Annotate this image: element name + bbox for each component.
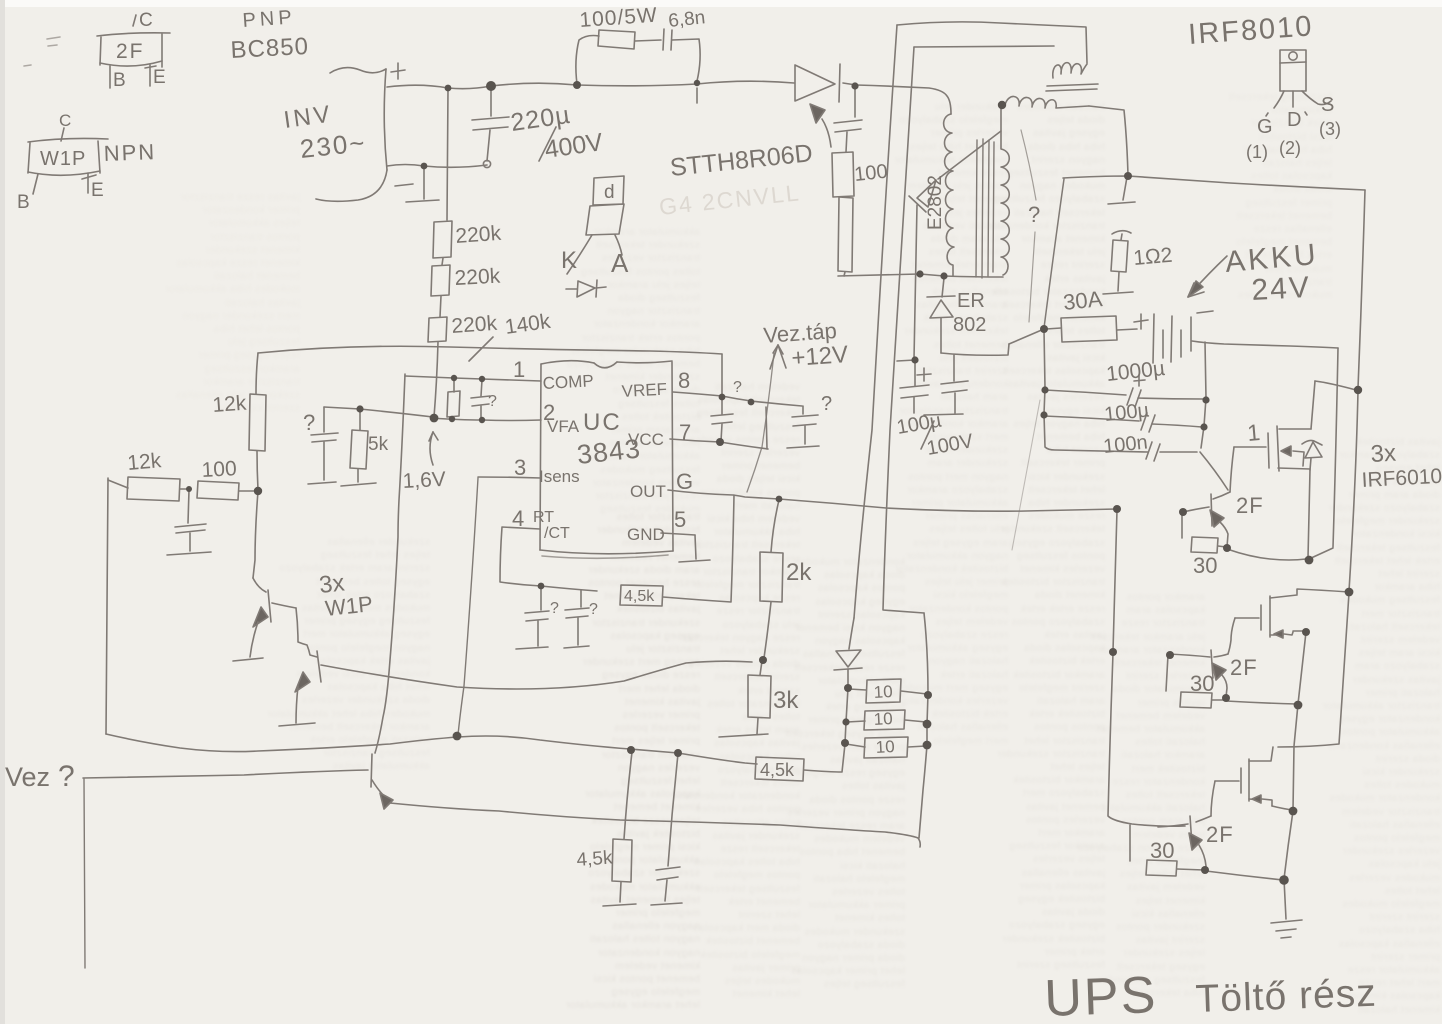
svg-text:A: A xyxy=(611,248,629,278)
transformer primary winding xyxy=(944,114,954,276)
capacitor on pin4 node (?) xyxy=(516,587,549,649)
legend 2F pin B lead xyxy=(109,66,111,88)
svg-text:IRF6010: IRF6010 xyxy=(1361,465,1442,492)
wire: bottom long line L1 xyxy=(106,734,757,764)
node 5k top xyxy=(356,405,363,412)
node transformer bottom b xyxy=(940,272,947,279)
legend W1P pin C lead xyxy=(61,128,64,141)
wire: Isens pin3 rail xyxy=(478,477,541,478)
MOSFET M2 stage xyxy=(1235,595,1306,638)
svg-text:VFA: VFA xyxy=(547,417,580,436)
svg-text:100n: 100n xyxy=(1102,431,1149,458)
svg-text:?: ? xyxy=(733,379,742,396)
svg-text:1,6V: 1,6V xyxy=(402,468,446,493)
svg-text:?: ? xyxy=(1028,202,1040,227)
node L1 pin3 xyxy=(453,732,462,741)
wire: battery minus vertical xyxy=(1333,348,1338,547)
node top rail a xyxy=(445,85,452,92)
resistor 100 snubber leg: cap xyxy=(834,86,862,152)
resistor 30 #1 xyxy=(1182,514,1226,553)
svg-text:OUT: OUT xyxy=(630,482,666,501)
wire: line B bus xyxy=(919,613,928,838)
annotation arrow AKKU xyxy=(1188,256,1227,297)
plus sign at 100u cap xyxy=(917,368,931,381)
node comp r xyxy=(451,375,457,381)
svg-text:220k: 220k xyxy=(454,265,501,290)
node caps left 2 xyxy=(1040,411,1047,418)
wire: battery minus branch down caps xyxy=(1200,342,1228,490)
svg-text:?: ? xyxy=(821,393,832,415)
svg-text:10: 10 xyxy=(875,737,895,757)
resistor 12k horizontal xyxy=(108,477,189,501)
wire: Vez? vertical tail xyxy=(84,779,85,968)
node VFA main xyxy=(430,414,439,423)
arrow up to +12V xyxy=(770,345,786,369)
svg-text:2F: 2F xyxy=(1206,822,1234,847)
140k annotation slash xyxy=(469,337,493,361)
inductor core bars xyxy=(1046,84,1098,91)
battery AKKU 24V xyxy=(1153,314,1191,363)
node +12V xyxy=(911,356,918,363)
snubber RC on secondary: cap xyxy=(1108,177,1135,240)
wire: source to battery minus bus xyxy=(1309,548,1333,559)
svg-text:?: ? xyxy=(550,600,559,617)
capacitor on VREF rail (?) xyxy=(711,397,733,441)
wire: VCC pin7 rail xyxy=(670,407,768,449)
node lineB 3 xyxy=(923,741,932,750)
resistor 220k #1 xyxy=(433,221,452,258)
svg-text:30: 30 xyxy=(1190,671,1214,696)
small diode symbol under package xyxy=(566,280,606,297)
wire: pin3 column down to bottom line xyxy=(458,478,478,735)
wire: long top rail of control section xyxy=(258,346,722,354)
wire: COMP pin1 rail xyxy=(405,376,541,381)
svg-text:B: B xyxy=(113,70,126,91)
svg-text:5k: 5k xyxy=(368,434,389,455)
node snubber right xyxy=(694,80,700,86)
wire: battery minus to right bus xyxy=(1192,341,1338,348)
svg-text:3x: 3x xyxy=(1370,440,1397,468)
node caps right 2 xyxy=(1200,423,1207,430)
svg-text:4,5k: 4,5k xyxy=(760,760,795,780)
svg-text:K: K xyxy=(561,247,577,274)
diode STTH8R06D on top rail xyxy=(795,64,856,102)
svg-text:E: E xyxy=(153,67,166,88)
svg-text:B: B xyxy=(17,192,30,213)
svg-text:W1P: W1P xyxy=(40,148,86,170)
node transformer bottom a xyxy=(916,270,923,277)
snubber: riser from top rail xyxy=(576,36,599,85)
wire: +12V feed line down to OUT corner xyxy=(747,353,774,492)
svg-text:(3): (3) xyxy=(1319,119,1341,139)
stray pencil marks top left xyxy=(24,37,60,66)
diode ER802 lower xyxy=(927,278,955,353)
svg-text:D: D xyxy=(1287,109,1301,131)
svg-text:E: E xyxy=(91,180,104,201)
svg-text:10: 10 xyxy=(873,709,893,729)
plus sign 1000u xyxy=(1134,375,1145,386)
wire: corner down to VREF pin 8 xyxy=(721,354,723,396)
svg-text:220k: 220k xyxy=(451,312,499,338)
svg-text:4: 4 xyxy=(512,506,524,531)
node vref c1 xyxy=(719,394,726,401)
svg-text:24V: 24V xyxy=(1251,271,1312,307)
svg-text:Töltő rész: Töltő rész xyxy=(1195,972,1378,1021)
resistor 100 snubber leg: body xyxy=(832,152,854,276)
svg-text:Vez: Vez xyxy=(5,762,50,792)
resistor 5k xyxy=(341,409,376,486)
wire: snubber return to rail xyxy=(672,39,700,81)
resistor chain lead from top rail xyxy=(447,89,448,220)
node 30-3 xyxy=(1201,866,1209,874)
wire: M3 gate down xyxy=(1211,781,1215,816)
capacitor at 12k/100 node xyxy=(167,490,211,555)
wire: enclosure left diagonal xyxy=(1044,179,1064,328)
svg-text:VREF: VREF xyxy=(621,380,667,401)
annotation arrow to diode xyxy=(810,104,831,147)
wire: GND pin5 xyxy=(661,533,710,562)
svg-text:30: 30 xyxy=(1193,553,1217,578)
svg-text:?: ? xyxy=(589,601,598,618)
svg-text:(1): (1) xyxy=(1246,142,1268,162)
resistor 4,5k (pin4) xyxy=(620,585,663,606)
wire: caps left rail xyxy=(1044,330,1148,452)
wire: RT/CT pin4 loop xyxy=(500,527,597,591)
capacitor COMP feedback xyxy=(471,380,490,419)
resistor 4,5k timing xyxy=(603,752,636,906)
capacitor 100n row xyxy=(1146,442,1197,461)
svg-text:4,5k: 4,5k xyxy=(624,588,655,605)
wire: 4,5k up to OUT line xyxy=(663,495,734,602)
svg-text:?: ? xyxy=(488,393,497,410)
wire: V2 to stage2 drain xyxy=(1297,589,1349,594)
wire: Q2 base long line to divider xyxy=(321,661,752,689)
svg-text:/CT: /CT xyxy=(544,525,570,542)
INV 230V input bracket xyxy=(316,68,387,202)
node snubber sec xyxy=(1124,172,1132,180)
node 2F1 base xyxy=(1179,508,1187,516)
svg-text:8: 8 xyxy=(678,368,690,393)
node M3 source xyxy=(1289,807,1298,816)
svg-text:10: 10 xyxy=(873,682,893,702)
wire: 5k/cap top rail xyxy=(324,407,433,417)
transistor Q1 (W1P) xyxy=(233,578,296,661)
resistor 220k #2 xyxy=(431,265,450,296)
svg-text:1: 1 xyxy=(513,357,525,382)
resistor 12k vertical xyxy=(249,353,266,490)
node 100 leg xyxy=(851,82,858,89)
node M1 source xyxy=(1305,556,1314,565)
wire xyxy=(440,296,441,317)
wire: top positive rail xyxy=(387,81,794,88)
wire: V2 down to stage3 xyxy=(1278,593,1349,747)
svg-text:G: G xyxy=(1257,116,1273,138)
resistor 30 #3 xyxy=(1130,825,1204,876)
resistor 220k #3 xyxy=(428,317,447,342)
node gate bus mid xyxy=(1109,648,1117,656)
coupled inductor top winding xyxy=(1053,63,1087,78)
resistor 1R2 xyxy=(1103,240,1133,294)
node vfa r xyxy=(449,416,455,422)
legend W1P pin E lead xyxy=(82,173,96,193)
transistor 2F #2 xyxy=(1168,650,1228,697)
svg-text:12k: 12k xyxy=(126,449,162,475)
node drain bus top xyxy=(1354,386,1362,394)
svg-text:100: 100 xyxy=(201,457,237,482)
capacitor 1000u row xyxy=(1045,388,1203,407)
legend W1P pin B lead xyxy=(33,174,38,194)
node L1 timing c xyxy=(674,749,682,757)
svg-text:30: 30 xyxy=(1150,838,1174,863)
svg-text:6,8n: 6,8n xyxy=(667,7,706,32)
node caps right 1 xyxy=(1202,396,1209,403)
resistor 4,5k bottom xyxy=(755,744,845,781)
svg-text:E2802: E2802 xyxy=(925,175,946,230)
node vfa c xyxy=(479,417,485,423)
MOSFET M1 stage xyxy=(1234,426,1311,471)
svg-text:30A: 30A xyxy=(1062,286,1104,315)
wire: M3 source bus down to ground xyxy=(1284,811,1293,919)
node gnd xyxy=(1279,875,1289,885)
wire: driver node to source bus xyxy=(1227,549,1306,560)
transistor 2F #3 xyxy=(1158,816,1211,866)
wire: driver2 node right xyxy=(1226,701,1297,704)
capacitor second on pin4 line (?) xyxy=(564,590,589,648)
IC UC3843 box xyxy=(540,361,673,559)
plus sign battery xyxy=(1134,314,1148,329)
svg-text:100: 100 xyxy=(853,161,888,186)
svg-text:802: 802 xyxy=(953,314,986,336)
node divider xyxy=(759,656,767,664)
wire: top loop of coupled inductor xyxy=(897,22,1087,63)
diode package drawing: body xyxy=(586,176,624,235)
node M2 source b xyxy=(1294,701,1303,710)
transistor legend W1P (NPN) pinout box xyxy=(28,138,108,175)
node 30-2 xyxy=(1222,694,1230,702)
node lineA 3 xyxy=(841,739,849,747)
svg-text:BC850: BC850 xyxy=(230,33,310,64)
IRF8010 package drawing xyxy=(1266,50,1331,116)
node lineA 2 xyxy=(842,718,849,725)
node lower rail xyxy=(421,163,428,170)
coupled inductor lower winding xyxy=(1005,96,1089,108)
node comp c xyxy=(479,376,485,382)
capacitor 220u/400V xyxy=(472,87,509,161)
node 12k/100 xyxy=(186,486,192,492)
svg-text:G: G xyxy=(676,469,693,494)
resistor 100 horizontal xyxy=(197,481,258,500)
node lineA 1 xyxy=(844,684,852,692)
svg-text:C: C xyxy=(59,111,71,130)
wire: M1 gate down to driver xyxy=(1230,447,1234,492)
wire: M1 source down xyxy=(1308,470,1310,558)
capacitor timing xyxy=(651,754,682,905)
transformer primary outer wire right xyxy=(883,47,924,613)
node battery in xyxy=(1040,325,1048,333)
resistor 3k xyxy=(719,661,771,737)
svg-text:NPN: NPN xyxy=(103,139,156,166)
svg-text:RT: RT xyxy=(533,509,554,526)
svg-text:W1P: W1P xyxy=(324,591,374,621)
wire: second top line xyxy=(914,46,1054,47)
transistor legend 2F (PNP BC850) pinout box xyxy=(97,15,170,67)
svg-text:5: 5 xyxy=(674,507,686,532)
transistor Q2 (W1P) xyxy=(279,608,321,726)
diode package leg K xyxy=(567,235,592,274)
wire: VFA pin2 rail xyxy=(431,418,541,421)
svg-text:2F: 2F xyxy=(1236,493,1264,518)
svg-text:4,5k: 4,5k xyxy=(576,847,614,870)
node vcc xyxy=(716,438,724,446)
resistor 10 #1 xyxy=(849,679,927,703)
node lineB 1 xyxy=(924,691,932,699)
node vref c2 xyxy=(748,399,755,406)
wire: line A with diode xyxy=(849,618,854,649)
wire: Q4 emitter long line L3 xyxy=(390,803,920,847)
wire: transformer bottom rail xyxy=(838,274,1003,277)
wire: rectified bus right edge xyxy=(1358,190,1365,388)
+12V node and caps 100u/100V xyxy=(897,355,968,415)
plus terminal xyxy=(391,63,405,79)
diode ER802 upper xyxy=(909,131,1001,359)
capacitor 100u row xyxy=(1044,413,1202,432)
node pin4 xyxy=(538,583,545,590)
wire: jog from bus to M1 drain xyxy=(1315,381,1356,390)
wire: secondary out to snubber column xyxy=(1089,106,1128,175)
svg-text:?: ? xyxy=(303,410,315,435)
wire: rectified bus top edge xyxy=(1063,176,1365,190)
node V2 stage2 xyxy=(1345,588,1354,597)
capacitor 6.8n xyxy=(663,29,672,50)
svg-text:S: S xyxy=(1321,94,1334,116)
node M2 source a xyxy=(1302,628,1310,636)
svg-text:Isens: Isens xyxy=(539,467,580,486)
minus sign battery xyxy=(1197,311,1213,313)
wire: chain down to VFA node xyxy=(434,342,438,417)
node open ring 220u bottom xyxy=(483,160,490,167)
node secondary top xyxy=(998,101,1006,109)
svg-text:12k: 12k xyxy=(212,392,248,417)
svg-text:d: d xyxy=(604,182,615,203)
capacitor ? left xyxy=(308,407,338,484)
svg-text:220k: 220k xyxy=(455,222,503,248)
node 100/12kv xyxy=(254,487,262,495)
faint crease line xyxy=(1012,400,1040,550)
wire: 12k column down to Q1 xyxy=(253,491,258,578)
svg-text:COMP: COMP xyxy=(542,371,594,393)
wire: drain bus V2 down xyxy=(1349,391,1358,591)
value slash 100u/100V xyxy=(921,421,934,449)
wire: VREF pin8 rail xyxy=(673,392,802,406)
wire xyxy=(442,258,443,265)
svg-text:(2): (2) xyxy=(1279,138,1301,158)
node snubber left xyxy=(573,81,581,89)
diode clamp mid xyxy=(834,650,862,687)
svg-text:1Ω2: 1Ω2 xyxy=(1132,244,1173,270)
wire: OUT pin6 rail to gate bus xyxy=(668,490,1117,511)
transformer secondary winding xyxy=(1001,107,1009,275)
svg-text:2F: 2F xyxy=(1230,655,1258,680)
svg-text:2k: 2k xyxy=(786,559,812,586)
resistor 100/5W xyxy=(598,30,635,49)
wire: to battery node xyxy=(941,329,1044,355)
resistor 10 #2 xyxy=(847,710,926,730)
value slash 220u/400V xyxy=(539,127,556,161)
transformer primary outer wire left xyxy=(854,25,897,618)
svg-text:?: ? xyxy=(58,760,75,793)
left enclosure edge xyxy=(106,478,108,734)
node L1 timing r xyxy=(627,746,635,754)
svg-text:UPS: UPS xyxy=(1043,966,1158,1024)
svg-text:C: C xyxy=(139,10,153,31)
wire: gate bus lower vertical xyxy=(1108,653,1185,826)
svg-text:UC: UC xyxy=(583,409,622,436)
resistor 2k xyxy=(760,500,783,658)
1,6V annotation arrow xyxy=(429,432,438,465)
minus terminal xyxy=(395,184,413,186)
resistor 10 #3 xyxy=(846,737,926,758)
svg-text:VCC: VCC xyxy=(628,430,664,449)
node 30-1 xyxy=(1223,544,1231,552)
wire: top rail into primary xyxy=(856,85,951,114)
MOSFET M3 stage xyxy=(1215,747,1293,810)
wire: gate bus vertical branch xyxy=(1113,510,1117,651)
node out rail b xyxy=(1113,505,1121,513)
node 2F2 base xyxy=(1166,651,1174,659)
wire xyxy=(635,40,661,41)
transistor 2F #1 xyxy=(1183,492,1230,547)
resistor 30 #2 xyxy=(1166,655,1225,708)
body diode M1 xyxy=(1302,381,1322,470)
wire: M2 gate down xyxy=(1228,618,1235,654)
wire: M2 source bus down xyxy=(1293,632,1306,810)
node A pin1 corner vertical (left enclosure right edge) xyxy=(375,374,405,753)
fuse 30A xyxy=(1046,316,1137,342)
svg-text:2F: 2F xyxy=(116,40,145,63)
transformer core lines xyxy=(976,139,994,278)
ground stub below lower rail xyxy=(406,168,439,202)
node top rail cap xyxy=(486,81,496,91)
faint query line to crossing xyxy=(1021,130,1036,200)
resistor COMP feedback xyxy=(447,379,460,420)
svg-text:PNP: PNP xyxy=(242,6,297,32)
wire: line A taps xyxy=(845,688,848,743)
node caps left 1 xyxy=(1041,386,1048,393)
diode package leg A xyxy=(615,235,622,255)
svg-text:3: 3 xyxy=(514,455,526,480)
wire: driver3 node right xyxy=(1206,871,1283,880)
svg-text:1: 1 xyxy=(1246,419,1261,446)
ground symbol xyxy=(1271,920,1302,938)
svg-text:7: 7 xyxy=(679,420,691,445)
bleed-through text from reverse side xyxy=(566,226,701,515)
node out rail a xyxy=(776,496,783,503)
wire: lower input rail xyxy=(387,165,487,168)
capacitor right (?) on VREF rail xyxy=(787,406,819,448)
svg-text:GND: GND xyxy=(627,525,665,544)
svg-text:ER: ER xyxy=(957,290,985,312)
wire: Vez? control line xyxy=(83,770,368,778)
svg-text:+12V: +12V xyxy=(791,341,849,372)
svg-text:3k: 3k xyxy=(773,687,799,714)
legend 2F pin E lead xyxy=(145,65,156,86)
node lineB 2 xyxy=(923,720,932,729)
transistor Q4 lower left xyxy=(371,754,393,809)
